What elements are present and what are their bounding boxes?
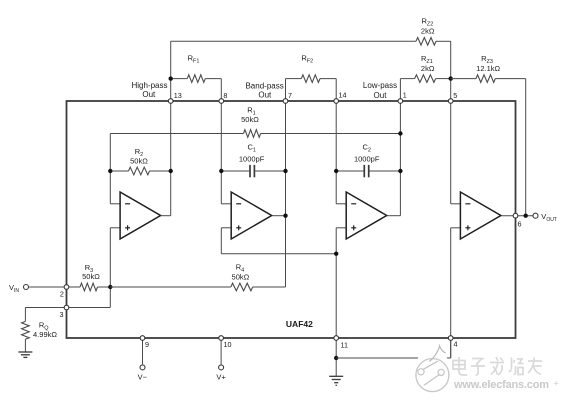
svg-text:8: 8 (223, 91, 227, 100)
svg-text:Low-pass: Low-pass (363, 81, 397, 90)
svg-text:14: 14 (339, 91, 347, 100)
wire A2 non-inverting column down (220, 228, 222, 254)
wire A4 inverting input stub (451, 203, 461, 205)
pin 11 (334, 336, 339, 341)
pin 13 (168, 99, 173, 104)
junction A2 output to band-pass column (283, 214, 287, 218)
wire R1 left lead from A1 inverting column (110, 133, 243, 135)
wire R_Z2 left lead from pin-13 column (171, 40, 416, 42)
wire pin-7 column (band-pass node, A2 output column) (285, 79, 287, 287)
wire RQ top lead (24, 308, 26, 322)
wire A2 output stub (272, 215, 286, 217)
wire R3 left lead (67, 286, 81, 288)
pin 9 (140, 336, 145, 341)
svg-text:2kΩ: 2kΩ (421, 26, 435, 35)
wire R_Z1 right lead to summing node (436, 78, 451, 80)
op-amp A1 (120, 192, 161, 239)
terminal V+ (219, 365, 224, 370)
terminal VIN (24, 285, 29, 290)
svg-text:50kΩ: 50kΩ (130, 157, 148, 166)
junction R2 left to A1 inverting node (108, 169, 112, 173)
wire A4 non-inverting column down to pin 4 and ground run (450, 228, 452, 358)
wire A1 inverting input stub (110, 203, 120, 205)
wire R_Z3 output column down to VOUT node (525, 79, 527, 216)
svg-text:2kΩ: 2kΩ (421, 64, 435, 73)
resistor R1 (50k ohm) (244, 130, 261, 138)
junction C2 right to A3 output column (398, 169, 402, 173)
pin 1 (398, 99, 403, 104)
svg-text:1: 1 (403, 91, 407, 100)
wire A3 non-inverting input stub (336, 227, 346, 229)
wire A4 non-inverting input stub (451, 227, 461, 229)
svg-text:1000pF: 1000pF (354, 155, 380, 164)
junction RZ3 to VOUT node (524, 214, 528, 218)
pin 5 (448, 99, 453, 104)
op-amp A4 (460, 192, 501, 239)
wire pin 10 stub to V+ (220, 338, 222, 364)
wire A3 output stub (387, 215, 401, 217)
svg-text:www.elecfans.com: www.elecfans.com (453, 379, 549, 391)
wire R_F2 right lead to pin-14 column (320, 78, 336, 80)
node R3/R4 summing node (108, 285, 112, 289)
svg-text:50kΩ: 50kΩ (241, 115, 259, 124)
pin 4 (448, 336, 453, 341)
svg-text:Out: Out (374, 91, 388, 100)
wire R2 right lead (150, 170, 171, 172)
junction C1 right to A2 output column (283, 169, 287, 173)
svg-text:50kΩ: 50kΩ (232, 273, 250, 282)
svg-text:4: 4 (454, 340, 458, 349)
svg-text:13: 13 (174, 91, 182, 100)
capacitor C2 (1000pF) (364, 165, 368, 177)
capacitor C1 (1000pF) (250, 165, 254, 177)
wire A1 output stub (161, 215, 171, 217)
wire R4 right lead to A2 output column (253, 286, 286, 288)
op-amp A3 (346, 192, 387, 239)
wire A1 inverting column (109, 134, 111, 204)
svg-text:4.99kΩ: 4.99kΩ (33, 330, 57, 339)
pin 10 (219, 336, 224, 341)
resistor RZ2 (2k ohm) (416, 38, 436, 46)
wire A1 non-inverting input stub (110, 227, 120, 229)
wire C2 left lead (336, 170, 363, 172)
wire R_Z3 left lead (451, 78, 476, 80)
pin 14 (334, 99, 339, 104)
resistor RF1 (187, 75, 205, 83)
wire pin-14 column (A3 inverting node column) (335, 79, 337, 204)
junction C2 left to A3 inverting node (334, 169, 338, 173)
wire R1 right lead to pin-1 column (261, 133, 401, 135)
resistor R4 (50k ohm) (231, 283, 253, 291)
wire C2 right lead (369, 170, 400, 172)
watermark elecfans logo (413, 346, 452, 393)
wire pin-13 column (high-pass node, A1 output column) (170, 41, 172, 215)
pin 8 (219, 99, 224, 104)
svg-text:7: 7 (288, 91, 292, 100)
watermark text dianzi fashaoyou (453, 357, 542, 375)
svg-text:50kΩ: 50kΩ (82, 272, 100, 281)
wire A3 non-inverting column down to pin 11 and ground (335, 228, 337, 376)
wire R_F2 left lead from pin-7 column (286, 78, 302, 80)
svg-text:+: + (554, 379, 559, 389)
svg-text:2: 2 (60, 290, 64, 299)
wire VIN to pin 2 (29, 286, 66, 288)
svg-text:3: 3 (60, 310, 64, 319)
svg-text:Out: Out (142, 90, 156, 99)
wire R_Z3 right lead (495, 78, 525, 80)
wire R2 left lead (110, 170, 128, 172)
svg-text:V+: V+ (216, 373, 226, 382)
wire A4 output to VOUT terminal (501, 215, 536, 217)
wire R3 right lead (98, 286, 111, 288)
svg-text:6: 6 (518, 220, 522, 229)
wire RQ bottom lead (24, 339, 26, 352)
pin 2 (64, 285, 69, 290)
wire R_Z2 right lead to summing node column (436, 40, 451, 42)
junction A2/A3 non-inverting ground tie (334, 252, 338, 256)
svg-text:High-pass: High-pass (131, 81, 167, 90)
wire A1 non-inverting column down to R3/R4 node and pin 3 jog (109, 228, 111, 308)
resistor RZ1 (2k ohm) (415, 75, 436, 83)
wire pin-8 column (A1 inverting node column) (220, 79, 222, 204)
pin 3 (64, 305, 69, 310)
svg-text:V−: V− (138, 373, 148, 382)
pin 6 (513, 213, 518, 218)
junction R1 to low-pass column (398, 131, 402, 135)
wire ground run from pin 11 to pin 4 (336, 357, 451, 359)
wire A3 inverting input stub (336, 203, 346, 205)
terminal VOUT (533, 213, 538, 218)
wire pin-5 column (A4 inverting node column) (450, 41, 452, 204)
resistor RZ3 (12.1k ohm) (476, 75, 495, 83)
wire A2 non-inverting ground run (221, 253, 336, 255)
wire R_Z1 left lead from pin-1 column (400, 78, 414, 80)
svg-text:1000pF: 1000pF (239, 155, 265, 164)
junction ground node below pin 11 (334, 356, 338, 360)
resistor R2 (50k ohm) (129, 167, 150, 175)
svg-text:Out: Out (258, 91, 272, 100)
wire pin 3 to RQ and summing node jog (25, 307, 110, 309)
wire ground stub below pin 4 (450, 338, 452, 358)
ground main symbol (329, 376, 343, 385)
wire R_F1 left lead (171, 78, 188, 80)
svg-text:5: 5 (453, 91, 457, 100)
ground for RQ (18, 352, 32, 357)
svg-text:UAF42: UAF42 (286, 319, 313, 329)
terminal V- (140, 365, 145, 370)
svg-text:Band-pass: Band-pass (245, 81, 283, 90)
wire C1 right lead (255, 170, 285, 172)
svg-text:11: 11 (341, 340, 348, 349)
junction R2 right to A1 output column (169, 169, 173, 173)
op-amp A2 (231, 192, 272, 239)
wire C1 left lead (221, 170, 249, 172)
wire A2 non-inverting input stub (221, 227, 231, 229)
wire A2 inverting input stub (221, 203, 231, 205)
pin 7 (283, 99, 288, 104)
wire pin-1 column (low-pass node, A3 output column) (399, 79, 401, 216)
svg-text:12.1kΩ: 12.1kΩ (476, 64, 500, 73)
svg-text:10: 10 (224, 340, 232, 349)
svg-text:9: 9 (145, 340, 149, 349)
wire R_F1 right lead to pin-8 column (205, 78, 221, 80)
resistor RF2 (301, 75, 320, 83)
junction C1 left to A2 inverting node (219, 169, 223, 173)
resistor R3 (50k ohm) (80, 283, 98, 291)
UAF42 package boundary (outline rectangle) (67, 101, 516, 338)
wire R4 left lead (110, 286, 231, 288)
node A4 summing junction (449, 76, 453, 80)
watermark url www.elecfans.com (453, 379, 549, 391)
junction high-pass node to R_F1/R_Z2 (169, 76, 173, 80)
wire pin 9 stub to V- (142, 338, 144, 364)
resistor RQ (4.99k ohm, vertical) (22, 321, 30, 339)
